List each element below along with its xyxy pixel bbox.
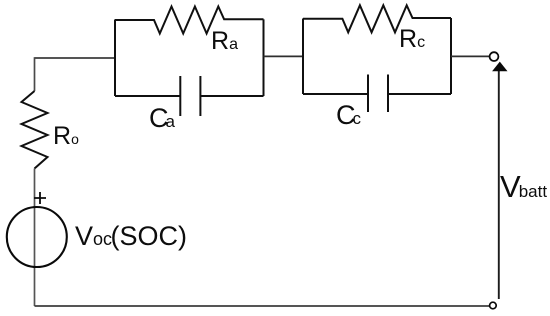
label Vbatt [500, 171, 547, 202]
wire [451, 55, 490, 57]
wire [34, 169, 36, 307]
wire [35, 305, 490, 307]
wire [34, 57, 36, 91]
capacitor Cc bottom branch wires [303, 93, 451, 95]
Vbatt arrow head [492, 62, 507, 72]
label Rc [399, 27, 425, 52]
RC block box 2 right edge [450, 18, 452, 94]
wire [264, 55, 304, 57]
wire [35, 57, 116, 59]
label Ra [211, 29, 238, 54]
RC block box 1 left edge [114, 20, 116, 97]
terminal node bottom (open circle) [490, 302, 497, 309]
Vbatt arrow shaft [498, 71, 500, 300]
label R0 [53, 124, 79, 149]
capacitor Ca plates [180, 76, 200, 116]
resistor Rc with top wire [303, 5, 451, 32]
resistor Ra with top wire [115, 7, 264, 34]
capacitor Cc plates [368, 75, 388, 113]
capacitor Ca bottom branch wires [115, 95, 264, 97]
resistor R0 [22, 91, 48, 169]
label Voc(SOC) [75, 223, 187, 250]
voltage source U1 Voc [7, 207, 67, 267]
RC block box 2 left edge [302, 19, 304, 95]
plus polarity mark [34, 192, 46, 204]
label Ca [149, 105, 175, 132]
label Cc [336, 102, 361, 129]
terminal node top (open circle) [490, 52, 499, 61]
RC block box 1 right edge [263, 19, 265, 96]
